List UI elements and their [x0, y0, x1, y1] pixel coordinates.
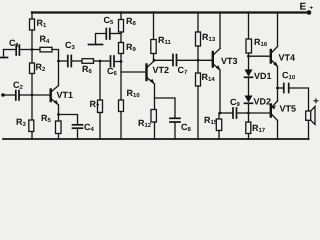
capacitor C7	[173, 55, 177, 66]
wire C10 to speaker	[289, 88, 309, 111]
svg-text:R6: R6	[82, 64, 93, 75]
wire R4 to collector column	[52, 50, 59, 62]
wire C8 to ground rail	[174, 122, 176, 139]
resistor R10	[119, 100, 124, 112]
svg-text:R4: R4	[40, 34, 51, 45]
wire R16 to node L	[248, 53, 250, 56]
svg-text:R16: R16	[254, 37, 268, 48]
wire R11 to VT2 collector node G	[153, 54, 155, 61]
wire node C to C6	[100, 60, 111, 62]
svg-text:C1: C1	[9, 38, 20, 49]
diode VD1	[245, 70, 253, 78]
wire R13 to node I	[197, 46, 199, 60]
wire node E to VT1 base	[32, 94, 50, 96]
node F junction	[57, 113, 60, 116]
wire VT5 collector down to ground rail	[277, 121, 279, 140]
wire R8 to C5 tee	[120, 32, 122, 43]
svg-text:VT4: VT4	[279, 53, 296, 63]
wire VT5 emitter up to node M	[277, 88, 279, 101]
svg-text:VT3: VT3	[221, 56, 238, 66]
wire C3 to R6	[71, 60, 82, 62]
wire R17 to ground rail	[248, 134, 250, 140]
diode VD2	[245, 96, 253, 104]
wire tee J to C9	[220, 112, 233, 114]
wire R9 down through node D to R10	[120, 54, 122, 101]
wire node F down to R5	[58, 115, 60, 122]
resistor R6	[82, 59, 94, 64]
svg-text:R3: R3	[16, 117, 27, 128]
svg-text:R15: R15	[204, 115, 218, 126]
svg-text:E: E	[300, 2, 307, 13]
svg-text:+: +	[310, 6, 314, 12]
wire tee J to R15	[218, 113, 220, 119]
svg-text:C8: C8	[181, 122, 192, 133]
wire R10 to ground rail	[120, 112, 122, 140]
capacitor C1	[16, 45, 19, 55]
resistor R13	[196, 32, 201, 46]
wire VT1 collector up to node B	[58, 61, 60, 86]
resistor R16	[246, 39, 252, 53]
wire tee H to R12	[154, 98, 156, 110]
wire node C down to R7	[99, 61, 101, 100]
wire tee H to C8	[155, 98, 176, 118]
resistor R15	[216, 119, 221, 131]
resistor R2	[30, 63, 35, 74]
wire node K down to R17	[248, 113, 250, 122]
resistor R3	[29, 120, 34, 132]
node B junction	[57, 60, 60, 63]
node E junction	[31, 94, 34, 97]
svg-text:C2: C2	[13, 80, 24, 91]
wire node B to C3	[59, 60, 68, 62]
wire R6 to node C	[94, 60, 101, 62]
wire VT1 emitter down to node F	[58, 105, 60, 115]
wire rail down to R13	[197, 12, 199, 32]
svg-text:R13: R13	[202, 32, 216, 43]
resistor R14	[196, 73, 201, 86]
resistor R8	[119, 20, 124, 33]
resistor R12	[151, 110, 156, 123]
wire R14 to ground rail	[197, 86, 199, 139]
wire node L to VT4 base	[249, 55, 271, 57]
wire C7 to node I	[177, 59, 199, 61]
wire C5 branch	[110, 33, 121, 35]
capacitor C5	[106, 29, 110, 40]
wire VT4 collector up to rail	[277, 12, 279, 47]
wire R5 to ground rail	[58, 134, 60, 140]
node E+ terminal dot	[307, 10, 312, 15]
resistor R11	[151, 40, 156, 54]
svg-text:R2: R2	[35, 62, 46, 73]
svg-text:VT2: VT2	[152, 65, 169, 75]
svg-text:VD1: VD1	[254, 71, 272, 81]
wire C5 to ground	[96, 34, 107, 45]
node J junction	[219, 112, 222, 115]
transistor VT3	[213, 49, 221, 71]
wire R1 to node A	[31, 30, 33, 50]
svg-text:R12: R12	[138, 118, 152, 129]
wire C6 to bias column	[114, 61, 121, 63]
node D junction	[120, 60, 123, 63]
capacitor C2	[16, 91, 19, 101]
resistor R7	[98, 100, 103, 113]
capacitor C8	[170, 118, 180, 122]
svg-text:R17: R17	[252, 123, 266, 134]
svg-text:C7: C7	[177, 65, 188, 76]
svg-text:+: +	[313, 96, 319, 107]
svg-text:R1: R1	[37, 18, 48, 29]
svg-text:R11: R11	[158, 35, 172, 46]
wire input upper line	[4, 49, 17, 51]
wire node E down to R3	[31, 95, 33, 120]
svg-text:C5: C5	[104, 15, 115, 26]
wire VT4 emitter down to output node M	[277, 67, 279, 88]
transistor VT2	[147, 61, 155, 84]
wire node I to VT3 base	[198, 59, 213, 61]
svg-text:VT5: VT5	[279, 104, 296, 114]
wire rail down to R1	[31, 12, 33, 19]
resistor R17	[246, 122, 251, 134]
wire VT3 collector up to rail	[219, 12, 221, 49]
wire R7 to ground rail	[99, 113, 101, 140]
svg-text:R8: R8	[126, 16, 137, 27]
node A junction	[31, 48, 34, 51]
speaker BA	[306, 107, 315, 125]
wire C1 to node A	[19, 49, 32, 51]
svg-text:VD2: VD2	[253, 97, 271, 107]
wire R2 to base line	[31, 74, 33, 96]
wire node L down to VD1	[248, 56, 250, 69]
wire top supply rail	[32, 11, 309, 13]
ground (C5)	[89, 44, 103, 46]
transistor VT4	[271, 47, 278, 68]
resistor R1	[30, 19, 35, 30]
wire C9 to node K	[237, 112, 249, 114]
svg-text:C4: C4	[84, 122, 95, 133]
wire rail down to R11	[153, 12, 155, 40]
wire VT3 emitter down to tee J	[219, 71, 221, 114]
capacitor C9	[233, 108, 237, 118]
node input terminal	[1, 93, 5, 97]
wire C4 to ground rail	[77, 128, 79, 139]
svg-text:VT1: VT1	[56, 90, 73, 100]
wire node G to C7	[154, 59, 173, 61]
svg-text:R9: R9	[126, 42, 137, 53]
resistor R4	[40, 47, 52, 52]
wire node A to R4	[32, 49, 40, 51]
capacitor C3	[68, 56, 72, 67]
wire C2 to node E	[19, 94, 32, 96]
wire node A down to R2	[31, 50, 33, 64]
wire R15 to ground rail	[218, 131, 220, 140]
wire rail down to R16	[248, 12, 250, 39]
wire node I down to R14	[197, 60, 199, 73]
node K junction	[247, 112, 250, 115]
svg-text:C9: C9	[230, 97, 241, 108]
svg-text:C6: C6	[107, 66, 118, 77]
wire node M to C10	[278, 87, 284, 89]
node L junction	[247, 55, 250, 58]
resistor R9	[119, 43, 124, 54]
svg-text:C10: C10	[282, 70, 296, 81]
wire input lower line	[3, 94, 16, 96]
svg-text:R5: R5	[41, 113, 52, 124]
node I junction	[197, 59, 200, 62]
wire speaker to ground rail	[308, 120, 310, 139]
transistor VT1	[51, 86, 59, 106]
wire node F to C4	[59, 115, 78, 125]
transistor VT5	[271, 101, 278, 121]
resistor R5	[56, 121, 62, 134]
node G junction	[153, 59, 156, 62]
wire R12 to ground rail	[154, 122, 156, 139]
wire VD1 to VD2	[248, 77, 250, 95]
capacitor C4	[73, 125, 83, 128]
wire rail down to R8	[120, 12, 122, 20]
capacitor C10	[284, 84, 289, 93]
svg-text:C3: C3	[65, 40, 76, 51]
svg-text:R14: R14	[201, 72, 215, 83]
ground (input upper)	[1, 50, 8, 58]
wire VT2 emitter down to tee H	[154, 84, 156, 98]
node C junction	[99, 60, 102, 63]
wire VD2 to node K	[248, 103, 250, 113]
wire R3 to ground rail	[31, 132, 33, 140]
wire bottom ground rail	[3, 138, 309, 140]
wire node K to VT5 base	[249, 112, 271, 114]
capacitor C6	[111, 56, 115, 67]
wire VT2 base branch	[121, 71, 146, 73]
node M junction	[276, 87, 279, 90]
svg-text:R10: R10	[126, 88, 140, 99]
